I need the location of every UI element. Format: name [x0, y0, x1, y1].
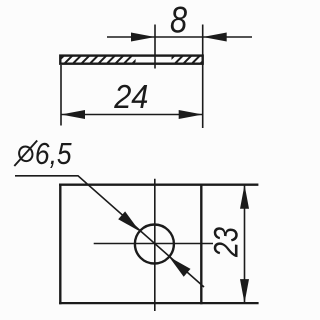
svg-text:8: 8 [170, 0, 187, 41]
svg-text:24: 24 [113, 78, 148, 115]
svg-text:6,5: 6,5 [35, 137, 72, 171]
svg-text:23: 23 [206, 227, 245, 258]
